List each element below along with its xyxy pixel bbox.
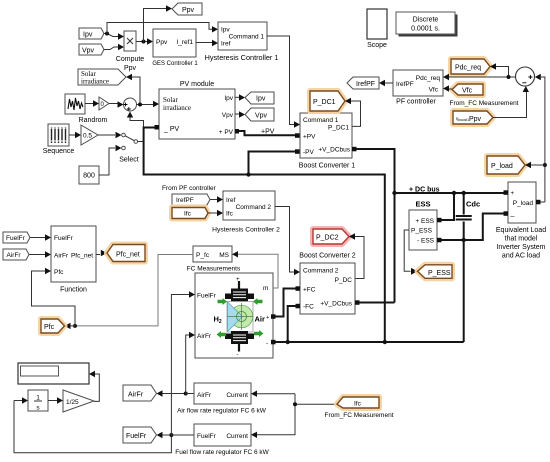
svg-text:Ipv: Ipv	[221, 27, 230, 34]
svg-text:-PV: -PV	[303, 149, 315, 156]
goto tag P_ESS highlighted	[418, 265, 453, 279]
svg-text:Ifc: Ifc	[184, 211, 192, 218]
svg-text:FuelFr: FuelFr	[197, 293, 217, 300]
annotation equivalent load	[496, 227, 546, 260]
svg-text:+V_DCbus: +V_DCbus	[318, 147, 350, 154]
svg-text:AirFr: AirFr	[7, 252, 22, 259]
node Pfc junction	[73, 324, 77, 328]
svg-text:Cdc: Cdc	[466, 200, 480, 209]
wire feedback from fuel node	[14, 401, 171, 453]
svg-text:Iref: Iref	[221, 41, 231, 48]
svg-text:Fuel flow rate regulator FC 6: Fuel flow rate regulator FC 6 kW	[175, 449, 269, 456]
wire boost1 +V_DCbus to DC bus	[352, 147, 395, 303]
svg-text:P_load: P_load	[491, 163, 513, 170]
svg-text:Current: Current	[226, 433, 248, 440]
source block Randrom	[65, 94, 108, 124]
svg-text:0.5: 0.5	[83, 133, 92, 140]
subsystem Boost Converter 2	[296, 253, 360, 315]
from tag Vfc highlighted	[450, 84, 519, 107]
svg-text:P_ESS: P_ESS	[411, 228, 433, 235]
wire boost2 +V_DCbus to DC bus vertical	[360, 302, 395, 304]
svg-text:P_DC: P_DC	[335, 277, 353, 284]
svg-text:Pfc_net: Pfc_net	[71, 253, 93, 260]
svg-text:MS: MS	[219, 252, 229, 259]
source block Sequence	[43, 124, 75, 155]
wire FuelFr tag to Function	[30, 234, 51, 240]
goto tag Pfc_net highlighted	[107, 245, 145, 262]
subsystem fuel flow regulator	[175, 424, 269, 456]
svg-text:Vfc: Vfc	[429, 87, 439, 94]
switch Select	[119, 133, 139, 163]
wire FC plus to boost2 +FC	[273, 289, 296, 317]
wire 800 to switch input2	[99, 145, 122, 175]
svg-text:- ESS: - ESS	[417, 238, 435, 245]
from tag Vpv	[79, 44, 104, 55]
svg-text:FC Measurements: FC Measurements	[187, 266, 241, 273]
svg-text:1: 1	[36, 395, 40, 402]
fuel cell icon	[214, 277, 266, 359]
svg-text:+FC: +FC	[303, 287, 316, 294]
svg-text:and AC load: and AC load	[502, 253, 540, 260]
wire PF IrefPF output to tag	[379, 80, 393, 86]
svg-text:Ppv: Ppv	[156, 39, 168, 46]
goto tag P_DC1 highlighted	[310, 91, 345, 111]
svg-text:0.0001 s.: 0.0001 s.	[411, 26, 440, 33]
svg-text:Solar: Solar	[163, 96, 178, 104]
measurement block P_fc MS	[193, 246, 232, 262]
svg-text:Inverter System: Inverter System	[496, 244, 545, 251]
node Cdc bottom junction	[462, 238, 466, 242]
svg-text:Air: Air	[255, 315, 266, 324]
svg-text:Ipv: Ipv	[83, 32, 93, 39]
svg-text:P_ESS: P_ESS	[428, 270, 451, 277]
display block	[18, 363, 89, 384]
svg-text:+ DC bus: + DC bus	[409, 187, 440, 194]
svg-text:Compute: Compute	[116, 56, 145, 63]
from tag Pdc_req highlighted	[451, 59, 490, 74]
wire P_fc output down to Pfc node	[75, 255, 193, 326]
scope block	[367, 9, 387, 49]
svg-text:AirFr: AirFr	[54, 253, 69, 260]
wire nPpv tag to sum2 minus	[493, 86, 529, 118]
wire PV Ipv to tag	[235, 94, 245, 100]
svg-text:IrefPF: IrefPF	[396, 81, 414, 88]
wire junction to P_load tag	[525, 162, 545, 168]
svg-text:Pdc_req: Pdc_req	[455, 65, 481, 72]
svg-text:_: _	[510, 210, 515, 217]
wire node to Pfc tag	[65, 323, 76, 329]
svg-text:Boost Converter 2: Boost Converter 2	[299, 253, 356, 260]
svg-text:-FC: -FC	[303, 304, 314, 311]
wire Sequence to gain05	[69, 132, 81, 138]
node -PV junction	[246, 172, 250, 176]
wire sum2 output to Pdc_req tag	[490, 63, 509, 77]
constant block 800	[79, 166, 99, 184]
node Ifc junction	[293, 402, 297, 406]
wire DC bus	[395, 187, 504, 194]
wire product to GES	[136, 38, 153, 44]
svg-text:that model: that model	[505, 236, 538, 243]
wire Ifc tag to hysteresis2	[208, 210, 223, 216]
subsystem Hysteresis Controller 2	[212, 191, 280, 234]
node DC bus junction	[392, 191, 396, 195]
svg-text:FuelFr: FuelFr	[54, 235, 74, 242]
svg-text:Ifc: Ifc	[226, 211, 234, 218]
svg-text:ESS: ESS	[415, 200, 430, 209]
svg-text:Iref: Iref	[226, 197, 236, 204]
svg-text:AirFr: AirFr	[128, 392, 144, 399]
svg-text:+V_DCbus: +V_DCbus	[320, 301, 352, 308]
gain block 0.5	[81, 125, 98, 145]
svg-text:Select: Select	[119, 157, 139, 164]
wire ESS P_ESS to tag	[404, 230, 417, 275]
node negative bus FC junction	[286, 340, 290, 344]
wire sum1 to PV module	[137, 101, 160, 107]
wire junction up to boost1 -PV	[249, 149, 301, 174]
svg-text:Vpv: Vpv	[222, 112, 234, 119]
svg-text:Sequence: Sequence	[43, 148, 75, 155]
subsystem Boost Converter 1	[299, 113, 356, 170]
wire junction right to negative bus	[249, 175, 385, 343]
node product output junction	[142, 40, 146, 44]
goto tag FuelFr bottom	[123, 427, 157, 443]
integrator block 1/s	[28, 390, 48, 412]
wire PV +PV to boost1	[235, 129, 300, 138]
from tag nboost1 Ppv highlighted	[453, 111, 493, 124]
wire Command1 to boost1	[267, 36, 300, 128]
svg-text:_ PV: _ PV	[163, 126, 180, 133]
wire switch to sum1	[127, 112, 144, 142]
wire product junction up to Ppv tag	[144, 5, 173, 41]
svg-text:FuelFr: FuelFr	[6, 235, 26, 242]
svg-text:Ipv: Ipv	[256, 96, 266, 103]
svg-text:From_FC Measurement: From_FC Measurement	[450, 100, 519, 107]
subsystem FC Measurements	[187, 266, 276, 359]
wire gain0 to sum1	[109, 101, 124, 107]
svg-text:Command 1: Command 1	[303, 117, 339, 124]
svg-text:Command 1: Command 1	[229, 34, 265, 41]
svg-text:+PV: +PV	[303, 134, 316, 141]
wire Command2 to boost2	[275, 207, 300, 276]
svg-text:Hysteresis Controller 1: Hysteresis Controller 1	[205, 53, 279, 62]
svg-text:From PF controller: From PF controller	[162, 185, 217, 192]
sum block sum2	[516, 67, 535, 86]
wire air node up to FC AirFr	[186, 332, 195, 394]
svg-text:I_ref1: I_ref1	[176, 39, 193, 46]
wire Vpv to product	[104, 44, 124, 50]
svg-text:AirFr: AirFr	[197, 333, 212, 340]
wire P_load output to vertical	[541, 201, 545, 203]
wire sum2 output to PF Pdc_req	[443, 74, 516, 80]
svg-text:+ PV: + PV	[219, 129, 234, 136]
svg-text:P_fc: P_fc	[196, 252, 210, 259]
goto tag P_DC2 highlighted red	[313, 229, 349, 244]
svg-text:Pfc: Pfc	[54, 269, 64, 276]
wire PV -PV down and right	[144, 128, 249, 175]
node sum2 output junction	[507, 75, 511, 79]
wire Randrom to gain0	[85, 100, 99, 106]
subsystem Function	[51, 226, 96, 294]
wire gain 1/25 to display	[89, 371, 99, 402]
svg-text:800: 800	[83, 173, 95, 180]
node negative bus PV junction	[383, 340, 387, 344]
svg-text:IrefPF: IrefPF	[356, 81, 375, 88]
from tag Ifc bottom highlighted	[325, 397, 394, 419]
svg-text:Equivalent Load: Equivalent Load	[496, 227, 546, 234]
svg-text:FuelFr: FuelFr	[197, 433, 217, 440]
wire AirFr tag to Function	[29, 251, 51, 257]
svg-text:Command 2: Command 2	[236, 204, 272, 211]
wire GES I_ref1 to hysteresis1 Iref	[196, 40, 218, 46]
wire Function output to Pfc_net tag	[96, 250, 107, 257]
svg-text:Ppv: Ppv	[124, 65, 137, 72]
subsystem GES Controller 1	[152, 29, 198, 67]
wire fuel node up to FC FuelFr	[171, 291, 195, 435]
svg-text:Scope: Scope	[367, 42, 387, 49]
svg-text:Vfc: Vfc	[462, 88, 473, 95]
goto tag Vpv	[245, 108, 274, 121]
svg-text:Ifc: Ifc	[354, 401, 362, 408]
svg-text:+PV: +PV	[261, 129, 275, 136]
load block P_load	[504, 182, 541, 223]
from tag Ipv	[79, 28, 104, 39]
svg-text:PF controller: PF controller	[396, 99, 436, 106]
svg-text:irradiance: irradiance	[81, 78, 109, 86]
wire fuel node to FuelFr tag	[157, 432, 172, 438]
from tag P_load highlighted	[487, 156, 525, 174]
svg-text:AirFr: AirFr	[197, 392, 212, 399]
subsystem PV module	[155, 81, 236, 139]
svg-text:Hysteresis Controller 2: Hysteresis Controller 2	[212, 227, 280, 234]
svg-text:m: m	[263, 285, 268, 292]
svg-text:+: +	[266, 315, 269, 321]
svg-text:+: +	[511, 191, 515, 197]
wire Ipv junction to hysteresis1 Ipv	[107, 23, 218, 34]
goto tag IrefPF	[347, 77, 379, 89]
svg-text:Discrete: Discrete	[413, 17, 439, 24]
svg-text:Current: Current	[226, 392, 248, 399]
svg-text:Ppv: Ppv	[182, 7, 195, 14]
wire Ipv to product	[104, 33, 124, 39]
goto tag Solar irradiance	[78, 69, 126, 86]
svg-text:Ppv: Ppv	[469, 116, 482, 123]
wire Vfc tag to PF Vfc	[443, 85, 452, 91]
wire load power to sum2 right input	[535, 74, 545, 202]
goto tag Ppv	[172, 3, 202, 15]
wire ESS minus to load minus	[442, 214, 504, 241]
svg-text:P_load: P_load	[513, 200, 534, 207]
wire air regulator output	[186, 393, 194, 395]
node P_load tag junction	[543, 163, 547, 167]
from tag FuelFr	[3, 232, 30, 243]
node fuel junction	[169, 433, 173, 437]
annotation Discrete 0.0001 s	[396, 12, 458, 37]
svg-text:+ ESS: + ESS	[415, 218, 434, 225]
subsystem PF controller	[393, 70, 443, 106]
wire loop into integrator	[14, 397, 28, 403]
svg-text:Vpv: Vpv	[255, 113, 268, 120]
wire FC minus output to negative bus	[276, 341, 288, 343]
svg-text:Pfc: Pfc	[44, 324, 55, 331]
svg-text:IrefPF: IrefPF	[176, 197, 194, 204]
wire negative bus up to boost2 -FC	[288, 306, 296, 342]
svg-text:P_DC1: P_DC1	[313, 99, 336, 106]
wire ESS plus to DC bus	[442, 195, 455, 220]
from tag AirFr	[3, 249, 29, 260]
svg-text:P_DC1: P_DC1	[328, 125, 349, 132]
svg-text:Randrom: Randrom	[79, 117, 108, 124]
svg-text:-: -	[266, 341, 268, 347]
goto tag Pfc highlighted	[41, 319, 65, 333]
subsystem Hysteresis Controller 1	[205, 22, 279, 62]
svg-text:Ipv: Ipv	[224, 95, 233, 102]
svg-text:FuelFr: FuelFr	[126, 433, 147, 440]
node bus Cdc junction	[462, 191, 466, 195]
svg-text:P_DC2: P_DC2	[316, 235, 339, 242]
wire air node to AirFr tag	[157, 390, 186, 396]
wire PV Vpv to tag	[235, 111, 245, 117]
sum block sum1	[124, 98, 137, 111]
svg-text:1/25: 1/25	[66, 399, 79, 406]
capacitor Cdc	[456, 193, 480, 342]
goto tag AirFr	[123, 385, 157, 401]
subsystem air flow regulator	[177, 383, 267, 415]
svg-text:Pfc_net: Pfc_net	[116, 252, 140, 259]
node Ipv junction	[105, 32, 109, 36]
node sum1 output junction	[138, 103, 142, 107]
wire FC m output to MS	[232, 251, 278, 288]
wire fuel regulator output	[171, 434, 194, 436]
wire Ifc to both Current inputs	[251, 391, 337, 438]
wire junction to Solar irradiance tag	[126, 74, 140, 105]
wire boost2 P_DC to tag	[349, 233, 364, 278]
wire integrator to gain 1/25	[48, 397, 63, 403]
svg-text:PV module: PV module	[180, 81, 214, 88]
svg-text:Command 2: Command 2	[303, 268, 339, 275]
wire node up to Function Pfc input	[32, 268, 76, 326]
node bus ESS junction	[452, 191, 456, 195]
svg-text:Vpv: Vpv	[82, 48, 95, 55]
svg-text:Boost Converter 1: Boost Converter 1	[299, 163, 356, 170]
from tag IrefPF	[172, 194, 210, 205]
svg-text:Function: Function	[60, 287, 87, 294]
battery block ESS	[409, 200, 442, 251]
gain block 0	[99, 97, 109, 110]
svg-text:From_FC Measurement: From_FC Measurement	[325, 412, 394, 419]
wire gain05 to switch input1	[98, 132, 122, 138]
svg-text:-: -	[237, 353, 239, 359]
gain block 1/25	[63, 390, 94, 412]
goto tag Ipv	[245, 92, 274, 104]
svg-text:Pdc_req: Pdc_req	[416, 75, 441, 82]
svg-text:irradiance: irradiance	[163, 104, 191, 112]
node air junction	[184, 392, 188, 396]
wire negative bus	[273, 341, 464, 343]
from tag Ifc highlighted	[172, 208, 208, 219]
svg-text:Air flow rate regulator FC 6 k: Air flow rate regulator FC 6 kW	[177, 408, 267, 415]
svg-text:GES Controller 1: GES Controller 1	[152, 61, 198, 67]
wire boost1 P_DC1 to tag	[345, 98, 361, 127]
wire IrefPF tag to hysteresis2	[210, 196, 223, 202]
product block Compute Ppv	[116, 31, 145, 72]
